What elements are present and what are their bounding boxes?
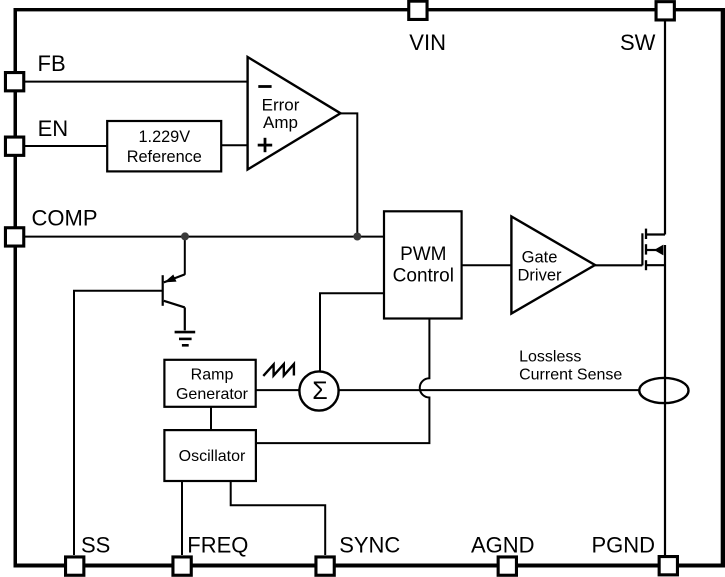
transistor Q1 (PNP clamp) bbox=[163, 274, 185, 330]
summer node sigma bbox=[299, 371, 338, 410]
pin SW bbox=[656, 2, 674, 20]
svg-text:AGND: AGND bbox=[471, 532, 535, 557]
pin AGND bbox=[498, 557, 516, 575]
wire MOSFET source down to PGND pin bbox=[664, 245, 666, 555]
transistor Q2 power NMOS bbox=[642, 229, 665, 271]
pin SS bbox=[66, 557, 84, 575]
svg-text:Lossless: Lossless bbox=[519, 349, 581, 366]
svg-text:VIN: VIN bbox=[409, 30, 446, 55]
reference box 1.229V bbox=[107, 121, 221, 171]
pin VIN bbox=[409, 1, 427, 19]
pin SYNC bbox=[316, 557, 334, 575]
svg-text:SW: SW bbox=[620, 30, 656, 55]
wire gate driver to MOSFET gate bbox=[595, 264, 643, 266]
ramp generator box bbox=[164, 360, 255, 407]
svg-text:Reference: Reference bbox=[127, 148, 202, 166]
pin FREQ bbox=[173, 557, 191, 575]
gate driver U2 bbox=[511, 217, 595, 314]
wire oscillator to FREQ pin bbox=[181, 481, 183, 555]
MOSFET body arrow bbox=[654, 245, 663, 256]
sawtooth waveform icon bbox=[263, 364, 294, 376]
wire FB pin to error amp inverting input bbox=[25, 81, 248, 83]
svg-text:FREQ: FREQ bbox=[187, 532, 248, 557]
wire error amp output down to COMP bus bbox=[341, 113, 358, 236]
wire oscillator to SYNC pin bbox=[231, 481, 326, 555]
ground symbol bbox=[175, 332, 196, 345]
svg-text:Driver: Driver bbox=[518, 267, 563, 285]
wire COMP bus bbox=[25, 236, 384, 238]
wire transistor base to SS pin bbox=[74, 291, 163, 555]
pin COMP bbox=[5, 228, 23, 246]
wire ramp generator to oscillator bbox=[210, 407, 212, 430]
wire SW pin to MOSFET drain bbox=[664, 21, 666, 235]
current sense ellipse bbox=[639, 378, 688, 403]
svg-text:Error: Error bbox=[262, 95, 300, 114]
svg-text:SS: SS bbox=[81, 532, 110, 557]
oscillator box bbox=[164, 430, 256, 481]
svg-text:EN: EN bbox=[38, 116, 69, 141]
svg-text:Ramp: Ramp bbox=[191, 366, 234, 383]
pin EN bbox=[5, 137, 23, 155]
wire reference to error amp non-inverting input bbox=[221, 144, 247, 146]
PWM control box bbox=[384, 211, 462, 318]
wire EN pin to reference bbox=[25, 145, 107, 147]
svg-text:Control: Control bbox=[393, 265, 454, 286]
wire summer output to current sense bbox=[339, 389, 640, 391]
plus sign bbox=[258, 138, 273, 152]
svg-text:COMP: COMP bbox=[32, 205, 98, 230]
svg-text:SYNC: SYNC bbox=[339, 532, 400, 557]
svg-text:Oscillator: Oscillator bbox=[179, 448, 246, 465]
svg-text:PGND: PGND bbox=[592, 532, 656, 557]
node junction dot error amp output bbox=[353, 233, 361, 241]
wire COMP bus down to transistor emitter bbox=[184, 237, 186, 275]
svg-text:Gate: Gate bbox=[522, 248, 558, 266]
wire summer to PWM control bbox=[320, 293, 384, 371]
node junction dot on COMP at transistor bbox=[181, 232, 189, 240]
svg-text:FB: FB bbox=[38, 51, 66, 76]
error amp U1 bbox=[248, 57, 341, 170]
svg-text:PWM: PWM bbox=[400, 244, 446, 265]
wire PWM control bottom to oscillator with hop over sense line bbox=[256, 319, 430, 444]
svg-text:Current Sense: Current Sense bbox=[519, 367, 622, 384]
pin FB bbox=[5, 73, 23, 91]
minus sign bbox=[258, 85, 271, 88]
svg-text:Amp: Amp bbox=[263, 113, 298, 132]
wire PWM control to gate driver bbox=[462, 264, 512, 266]
transistor emitter arrow bbox=[164, 275, 176, 283]
wire ramp generator to summer bbox=[256, 389, 300, 391]
svg-text:1.229V: 1.229V bbox=[138, 128, 190, 146]
svg-text:Σ: Σ bbox=[312, 377, 327, 405]
svg-text:Generator: Generator bbox=[176, 386, 249, 403]
pin PGND bbox=[659, 557, 677, 575]
